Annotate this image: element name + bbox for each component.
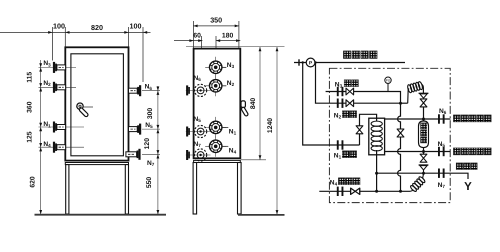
svg-text:180: 180	[222, 33, 234, 40]
tank shell (side)	[194, 49, 241, 159]
label N2 side	[222, 85, 226, 87]
wire: N2 line extension to pigtail	[401, 102, 408, 104]
svg-text:Y: Y	[464, 181, 472, 193]
nozzle N1	[53, 122, 66, 133]
process header line 工艺管道	[294, 62, 405, 64]
manhole handle	[77, 103, 93, 117]
valve on riser	[356, 126, 363, 134]
nozzle N6	[129, 85, 142, 96]
flange N6	[438, 114, 445, 123]
label 冷却水进口	[453, 148, 491, 155]
wire: bottle to inlet line	[423, 148, 425, 155]
tank inner shell	[71, 54, 124, 156]
tank outer shell	[65, 47, 128, 160]
dim 1240 line	[276, 47, 278, 214]
svg-text:125: 125	[27, 131, 34, 143]
drain header line to N7	[377, 173, 468, 179]
svg-text:360: 360	[27, 101, 34, 113]
nozzle N2	[53, 82, 66, 93]
bottle drain valve	[420, 154, 427, 162]
dim 840 line	[259, 47, 261, 160]
vent drop leg with crossing hops	[398, 103, 401, 191]
wire: relief leg down to outlet line	[423, 107, 425, 123]
hidden nozzle N7 with axis	[186, 154, 211, 156]
nozzle N7	[126, 149, 141, 160]
battery-limit dash-dot border	[329, 68, 450, 202]
valve on N4 line	[351, 188, 360, 194]
flange N4	[337, 187, 344, 196]
svg-text:120: 120	[144, 138, 151, 150]
nozzle N5	[129, 124, 142, 135]
right dimension chain column	[157, 86, 159, 214]
relief valve	[420, 99, 427, 107]
svg-text:115: 115	[27, 72, 34, 83]
drain funnel	[420, 166, 427, 170]
junction at sampling bottle top	[422, 118, 425, 121]
top dimension line 100/820/100	[0, 27, 151, 82]
relief funnel	[420, 94, 427, 98]
svg-text:1240: 1240	[267, 118, 274, 133]
right leg	[238, 163, 242, 215]
junction N2/N3/V3	[399, 102, 402, 105]
label 冷却水出口	[453, 115, 491, 122]
svg-text:350: 350	[210, 16, 222, 25]
nozzle circle N2	[205, 75, 226, 96]
nozzle axis extension lines (left)	[39, 67, 161, 154]
wire: left downcomer to N1	[303, 63, 360, 146]
nozzle circle N1	[205, 117, 226, 138]
coil turns	[371, 121, 382, 151]
cooling water outlet line N6	[385, 118, 451, 120]
svg-text:100: 100	[130, 22, 142, 31]
valve on N3 line	[346, 88, 354, 95]
svg-text:100: 100	[53, 22, 65, 31]
flange N1	[337, 140, 344, 149]
svg-text:840: 840	[250, 98, 257, 110]
label N1 side	[222, 126, 228, 128]
svg-text:60: 60	[193, 33, 201, 40]
instrument P	[306, 58, 315, 67]
svg-text:550: 550	[146, 177, 153, 189]
pigtail to drain header	[410, 190, 413, 192]
label 排净口	[456, 163, 477, 170]
svg-text:820: 820	[91, 23, 103, 32]
N4 drain line	[319, 190, 410, 192]
left leg	[193, 163, 197, 215]
junction tees on header	[302, 61, 304, 63]
svg-text:620: 620	[30, 176, 37, 188]
wire: vessel drain drop	[376, 150, 378, 191]
pressure gauge PG	[387, 83, 389, 91]
header end cap	[298, 59, 300, 65]
top extension line to height dims	[186, 45, 285, 47]
label N3 side	[222, 66, 226, 68]
wire: second downcomer to N2	[316, 63, 401, 104]
base frame band	[65, 163, 128, 165]
nozzle N3	[53, 62, 66, 73]
nozzle N4	[53, 142, 66, 153]
label 工艺管道	[343, 51, 377, 59]
ground line	[35, 214, 167, 216]
nozzle circle N4	[205, 136, 226, 157]
wire: riser from N1 line into vessel	[360, 114, 377, 145]
right leg	[125, 165, 128, 214]
cooling water inlet line N5	[385, 151, 451, 153]
side stub flanges	[186, 85, 190, 160]
dim 350 line	[193, 21, 239, 48]
hidden nozzle N5 with axis	[186, 131, 211, 133]
pigtail siphon to relief	[408, 89, 410, 104]
flange N2	[337, 99, 344, 108]
nozzle circle N3	[205, 57, 226, 78]
svg-text:PG: PG	[386, 79, 391, 83]
valve on vent drop leg	[397, 129, 404, 137]
flange N5	[438, 147, 445, 156]
left dimension chain column	[40, 60, 42, 214]
hidden nozzle N6 with axis	[186, 89, 211, 91]
dim 60/180 line	[174, 36, 240, 84]
sampling bottle	[419, 121, 429, 148]
bottle label 采样瓶	[421, 123, 427, 129]
wire: N3 vent line	[326, 92, 401, 104]
handle side profile	[241, 101, 249, 117]
flange N7	[438, 169, 445, 178]
left leg	[66, 165, 69, 214]
label N4 side	[222, 145, 228, 147]
valve on N2 line	[346, 100, 354, 107]
base frame band	[194, 160, 241, 162]
svg-text:300: 300	[147, 108, 154, 120]
heat exchange coil vessel	[369, 118, 385, 155]
ground line	[238, 214, 285, 216]
flange N3	[337, 87, 344, 96]
